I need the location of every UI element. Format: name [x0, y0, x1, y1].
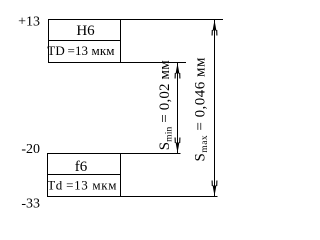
- arrowhead Smax down: [212, 181, 217, 197]
- tolerance zone f6 middle divider line: [47, 174, 120, 176]
- tolerance zone f6 bottom line / -33 level line: [47, 196, 218, 198]
- svg-text:f6: f6: [75, 159, 88, 175]
- tolerance zone f6 right divider: [120, 153, 122, 197]
- arrowhead Smax up: [212, 20, 217, 36]
- arrowhead Smin down: [175, 138, 180, 154]
- arrowhead Smin up: [175, 63, 180, 79]
- tolerance zone H6 middle divider line: [48, 40, 120, 42]
- svg-text:+13: +13: [18, 15, 40, 30]
- svg-text:Td =13 мкм: Td =13 мкм: [47, 178, 117, 193]
- tolerance zone f6 left edge: [47, 153, 49, 197]
- tolerance zone H6 (hole) top line / +13 level line: [48, 19, 223, 21]
- tolerance zone H6 bottom line / zero level line: [48, 62, 186, 64]
- tolerance zone H6 right divider: [120, 19, 122, 63]
- svg-text:Н6: Н6: [76, 23, 95, 39]
- svg-text:TD =13 мкм: TD =13 мкм: [47, 43, 114, 58]
- tolerance zone f6 (shaft) top line / -20 level line: [47, 153, 181, 155]
- tolerance zone H6 left edge: [48, 19, 50, 63]
- svg-text:-20: -20: [21, 142, 40, 157]
- svg-text:-33: -33: [21, 197, 40, 212]
- dimension line Smin: [177, 63, 179, 153]
- dimension line Smax: [214, 20, 216, 197]
